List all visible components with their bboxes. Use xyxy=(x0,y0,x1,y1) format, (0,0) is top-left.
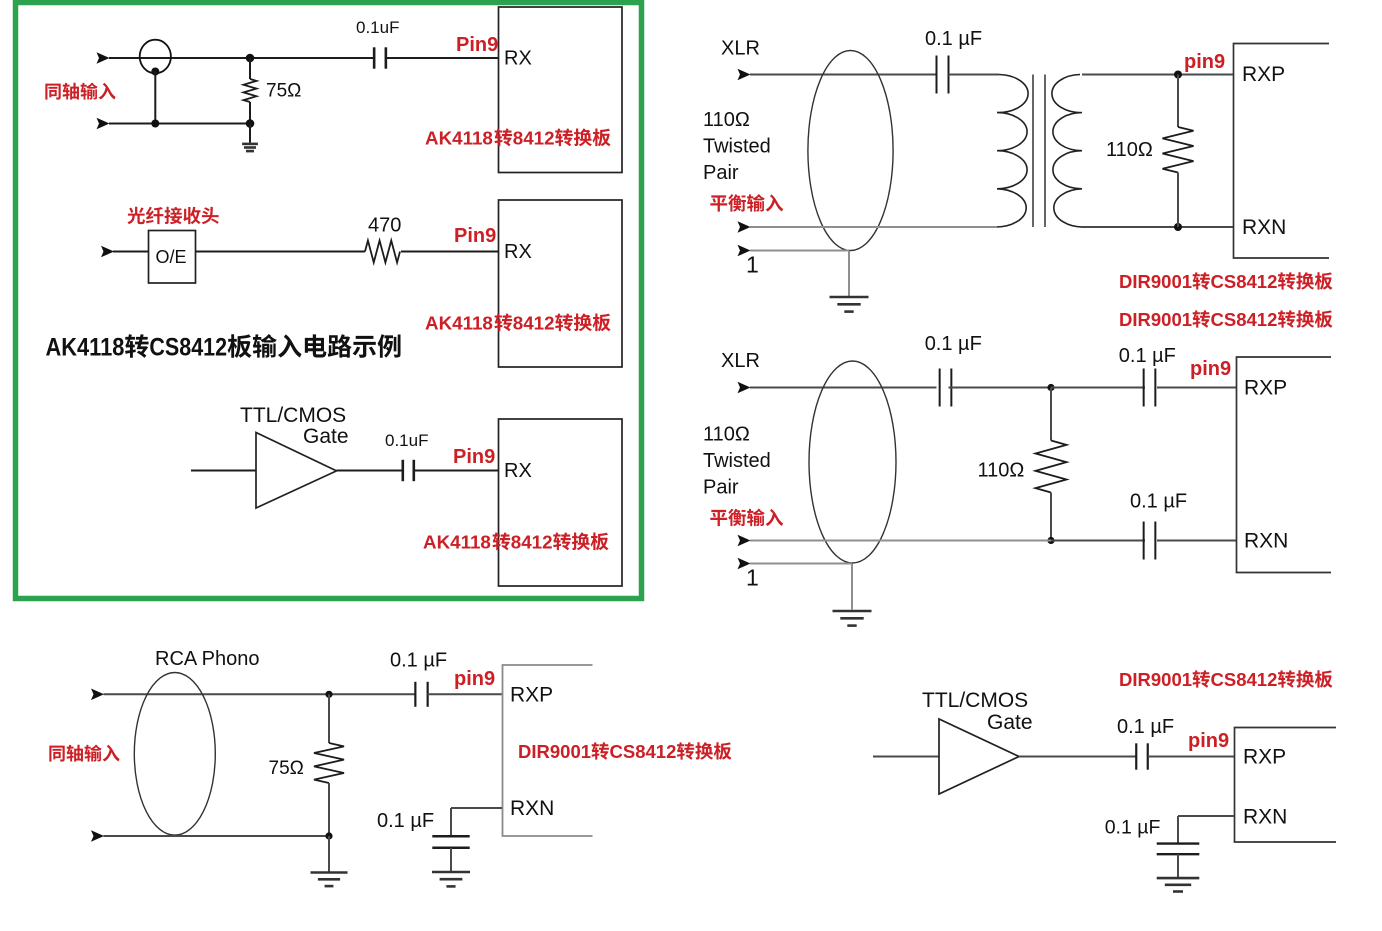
wire to ground F xyxy=(328,836,330,872)
label 0.1µF C6 xyxy=(1130,491,1187,513)
svg-text:RXP: RXP xyxy=(1244,377,1287,400)
svg-text:RXP: RXP xyxy=(510,684,553,707)
svg-text:RXN: RXN xyxy=(510,797,554,820)
svg-text:Pair: Pair xyxy=(703,477,739,499)
node R4 top xyxy=(1047,384,1054,391)
svg-text:DIR9001: DIR9001 xyxy=(1119,309,1192,330)
input arrow E pin1 xyxy=(738,558,751,570)
wire XLR hot to C3 xyxy=(750,74,937,76)
ground F xyxy=(311,873,348,887)
label 同轴输入 A xyxy=(45,83,115,100)
node return junction xyxy=(151,120,159,128)
cable shield ellipse F xyxy=(134,673,215,836)
wire R5 top lead xyxy=(328,694,330,743)
svg-text:110Ω: 110Ω xyxy=(703,109,750,131)
ground E xyxy=(833,611,872,626)
svg-text:0.1 µF: 0.1 µF xyxy=(1117,716,1174,738)
wire C7 to RXP xyxy=(428,693,503,695)
resistor R5 75Ω xyxy=(314,743,344,783)
wire node to C5 xyxy=(1051,387,1145,389)
wire C4 to node xyxy=(949,387,1052,389)
wire R1 top lead xyxy=(249,58,251,79)
wire R1 bottom lead xyxy=(249,102,251,124)
svg-text:O/E: O/E xyxy=(156,247,187,267)
pin RXP U6 xyxy=(510,684,553,707)
svg-text:8412: 8412 xyxy=(511,532,553,553)
wire circle to return xyxy=(154,72,156,124)
converter board U4 DIR9001 xyxy=(1234,44,1330,259)
label XLR E xyxy=(721,350,760,372)
pin RXP U7 xyxy=(1243,746,1286,769)
svg-text:RXN: RXN xyxy=(1243,806,1287,829)
ground G xyxy=(1157,878,1200,891)
wire shield to ground E xyxy=(851,564,853,610)
svg-text:1: 1 xyxy=(746,565,759,591)
label TTL/CMOS C xyxy=(240,404,346,427)
label 平衡输入 D xyxy=(710,194,783,212)
svg-text:Pin9: Pin9 xyxy=(453,446,495,468)
svg-text:DIR9001: DIR9001 xyxy=(1119,271,1192,292)
node R4 bottom xyxy=(1047,537,1054,544)
svg-text:1: 1 xyxy=(746,252,759,278)
label 110Ω R3 xyxy=(1106,139,1153,161)
svg-text:RCA Phono: RCA Phono xyxy=(155,648,260,670)
svg-text:110Ω: 110Ω xyxy=(703,424,750,446)
svg-text:RXN: RXN xyxy=(1242,216,1286,239)
svg-text:AK4118: AK4118 xyxy=(425,128,493,149)
wire to C8 xyxy=(450,808,452,836)
label pin9 F xyxy=(454,668,495,690)
node circle tap xyxy=(151,68,159,76)
svg-text:Pin9: Pin9 xyxy=(454,225,496,247)
pin RXP U4 xyxy=(1242,63,1285,86)
svg-text:110Ω: 110Ω xyxy=(978,460,1025,482)
wire XLR hot to C4 xyxy=(750,387,937,389)
input arrow D pin3 xyxy=(738,221,751,233)
label pin9 G xyxy=(1188,730,1229,752)
wire to ground A xyxy=(249,124,251,143)
input arrow E pin2 xyxy=(738,382,751,394)
label 光纤接收头 xyxy=(127,207,218,224)
label Pin9 A xyxy=(456,34,498,56)
pin RX U2 xyxy=(504,241,532,263)
svg-text:AK4118: AK4118 xyxy=(423,532,491,553)
svg-text:Gate: Gate xyxy=(303,425,349,448)
label DIR9001转CS8412转换板 row1 xyxy=(1119,271,1333,292)
label AK4118转8412转换板 U1 xyxy=(425,128,611,149)
svg-text:CS8412: CS8412 xyxy=(610,741,677,762)
label 0.1µF C3 xyxy=(925,28,982,50)
wire RCA return xyxy=(104,835,330,837)
label Pin9 C xyxy=(453,446,495,468)
label 75Ω R1 xyxy=(266,81,301,102)
wire R3 bottom lead xyxy=(1177,173,1179,228)
wire R3 top lead xyxy=(1177,75,1179,128)
converter board U7 DIR9001 xyxy=(1235,728,1337,843)
label 110Ω R4 xyxy=(978,460,1025,482)
label Pair D xyxy=(703,162,739,184)
svg-text:8412: 8412 xyxy=(513,313,555,334)
svg-text:75Ω: 75Ω xyxy=(269,758,304,779)
node R5 bottom xyxy=(325,832,332,839)
capacitor C5 0.1µF xyxy=(1144,369,1156,407)
wire RXN stub F xyxy=(451,807,502,809)
node R3 top xyxy=(1174,71,1182,79)
wire C3 to T1 primary xyxy=(949,74,1000,76)
label AK4118转8412转换板 U2 xyxy=(425,313,611,334)
svg-text:RX: RX xyxy=(504,48,532,70)
wire XLR cold to T1 xyxy=(750,226,997,228)
label 平衡输入 E xyxy=(710,509,783,527)
label RCA Phono xyxy=(155,648,260,670)
label 同轴输入 F xyxy=(49,745,119,762)
node R5 top xyxy=(325,691,332,698)
svg-text:8412: 8412 xyxy=(513,128,555,149)
capacitor C1 0.1uF xyxy=(374,47,386,68)
svg-text:RXN: RXN xyxy=(1244,530,1288,553)
capacitor C8 0.1µF xyxy=(432,836,469,848)
svg-text:Twisted: Twisted xyxy=(703,450,771,472)
wire O/E to R2 xyxy=(196,251,365,253)
svg-text:0.1uF: 0.1uF xyxy=(356,18,399,37)
svg-text:CS8412: CS8412 xyxy=(1211,271,1278,292)
ground F2 xyxy=(432,872,470,886)
wire R4 bottom lead xyxy=(1050,493,1052,541)
svg-text:pin9: pin9 xyxy=(454,668,495,690)
label 110Ω cable E xyxy=(703,424,750,446)
capacitor C7 0.1µF xyxy=(415,682,427,707)
label DIR9001转CS8412转换板 G xyxy=(1119,669,1333,690)
label 0.1uF C1 xyxy=(356,18,399,37)
wire XLR cold xyxy=(750,540,1051,542)
svg-text:RXP: RXP xyxy=(1242,63,1285,86)
transformer T1 xyxy=(995,75,1084,228)
svg-text:0.1 µF: 0.1 µF xyxy=(1130,491,1187,513)
label 470 R2 xyxy=(368,215,401,237)
pin RXN U6 xyxy=(510,797,554,820)
wire coax return xyxy=(109,123,250,125)
input arrow F plus xyxy=(91,689,104,701)
wire C2 to RX xyxy=(414,470,498,472)
svg-text:Pair: Pair xyxy=(703,162,739,184)
svg-text:AK4118: AK4118 xyxy=(425,313,493,334)
svg-text:CS8412: CS8412 xyxy=(149,334,227,362)
svg-text:Gate: Gate xyxy=(987,711,1033,734)
gate buffer triangle C xyxy=(256,433,337,509)
resistor R1 75Ω xyxy=(244,79,257,102)
wire T1 sec to RXP xyxy=(1082,74,1233,76)
svg-text:0.1 µF: 0.1 µF xyxy=(377,810,434,832)
wire R4 top lead xyxy=(1050,388,1052,441)
pin RX U1 xyxy=(504,48,532,70)
label 75Ω R5 xyxy=(269,758,304,779)
svg-text:0.1 µF: 0.1 µF xyxy=(390,650,447,672)
pin RXP U5 xyxy=(1244,377,1287,400)
svg-text:XLR: XLR xyxy=(721,38,760,60)
svg-text:pin9: pin9 xyxy=(1184,51,1225,73)
cable shield ellipse D xyxy=(808,51,893,251)
label Twisted E xyxy=(703,450,771,472)
svg-text:AK4118: AK4118 xyxy=(46,334,125,362)
input arrow A minus xyxy=(97,118,110,130)
wire C5 to RXP xyxy=(1157,387,1236,389)
label TTL/CMOS G xyxy=(922,689,1028,712)
converter board U6 DIR9001 xyxy=(503,665,593,836)
label 0.1µF C4 xyxy=(925,333,982,355)
svg-text:DIR9001: DIR9001 xyxy=(1119,669,1192,690)
capacitor C9 0.1µF xyxy=(1136,743,1148,769)
label 0.1µF C8 xyxy=(377,810,434,832)
input arrow D pin1 xyxy=(738,245,751,257)
node R1 bottom xyxy=(246,119,255,128)
pin RX U3 xyxy=(504,460,532,482)
wire RCA signal xyxy=(104,693,416,695)
label pin 1 E xyxy=(746,565,759,591)
wire R2 to RX xyxy=(401,251,498,253)
label Gate G xyxy=(987,711,1033,734)
resistor R3 110Ω xyxy=(1163,127,1194,173)
label XLR D xyxy=(721,38,760,60)
wire gate to C9 xyxy=(1019,756,1136,758)
label pin9 E xyxy=(1190,358,1231,380)
ground D xyxy=(830,297,869,312)
wire C6 to RXN xyxy=(1157,540,1236,542)
svg-text:0.1 µF: 0.1 µF xyxy=(925,28,982,50)
pin RXN U5 xyxy=(1244,530,1288,553)
RCA connector circle xyxy=(140,40,171,74)
converter board U5 DIR9001 xyxy=(1237,357,1332,573)
label 0.1µF C10 xyxy=(1105,817,1161,839)
svg-text:TTL/CMOS: TTL/CMOS xyxy=(922,689,1028,712)
label Twisted D xyxy=(703,136,771,158)
wire gate to C2 xyxy=(337,470,404,472)
label 0.1µF C9 xyxy=(1117,716,1174,738)
wire C8 to ground xyxy=(450,848,452,871)
label Pair E xyxy=(703,477,739,499)
svg-text:pin9: pin9 xyxy=(1188,730,1229,752)
pin RXN U7 xyxy=(1243,806,1287,829)
label DIR9001转CS8412转换板 U6 xyxy=(518,741,732,762)
label pin9 D xyxy=(1184,51,1225,73)
svg-text:TTL/CMOS: TTL/CMOS xyxy=(240,404,346,427)
node R3 bottom xyxy=(1174,223,1182,231)
label AK4118转8412转换板 U3 xyxy=(423,532,609,553)
svg-text:DIR9001: DIR9001 xyxy=(518,741,591,762)
svg-text:470: 470 xyxy=(368,215,401,237)
label 0.1uF C2 xyxy=(385,431,428,450)
label pin 1 D xyxy=(746,252,759,278)
wire to O/E xyxy=(113,251,148,253)
wire C1 to RX xyxy=(386,57,498,59)
svg-text:0.1 µF: 0.1 µF xyxy=(925,333,982,355)
svg-text:CS8412: CS8412 xyxy=(1211,669,1278,690)
capacitor C6 0.1µF xyxy=(1144,522,1156,560)
node R1 top xyxy=(246,54,255,63)
wire shield D xyxy=(750,250,849,252)
input arrow E pin3 xyxy=(738,535,751,547)
title AK4118转CS8412板输入电路示例 xyxy=(46,334,401,362)
wire shield E xyxy=(750,563,852,565)
svg-text:RXP: RXP xyxy=(1243,746,1286,769)
svg-text:0.1uF: 0.1uF xyxy=(385,431,428,450)
label 0.1µF C7 xyxy=(390,650,447,672)
svg-text:Twisted: Twisted xyxy=(703,136,771,158)
label 110Ω cable D xyxy=(703,109,750,131)
svg-text:XLR: XLR xyxy=(721,350,760,372)
wire to C10 xyxy=(1177,816,1179,844)
resistor R2 470 xyxy=(365,241,400,263)
ground A xyxy=(242,144,258,151)
svg-text:75Ω: 75Ω xyxy=(266,81,301,102)
converter board U3 AK4118 xyxy=(499,419,623,586)
gate buffer triangle G xyxy=(939,719,1019,794)
wire coax signal xyxy=(109,57,374,59)
capacitor C4 0.1µF xyxy=(940,369,952,407)
wire C10 to ground xyxy=(1177,854,1179,877)
wire gate input C xyxy=(191,470,256,472)
label O/E xyxy=(156,247,187,267)
optical receiver O/E xyxy=(149,231,196,284)
input arrow D pin2 xyxy=(738,69,751,81)
input arrow B xyxy=(101,246,114,258)
label DIR9001转CS8412转换板 row2 xyxy=(1119,309,1333,330)
wire T1 sec to RXN xyxy=(1082,226,1233,228)
wire R5 bottom lead xyxy=(328,783,330,836)
svg-text:Pin9: Pin9 xyxy=(456,34,498,56)
wire RXN stub G xyxy=(1178,815,1234,817)
label 0.1µF C5 xyxy=(1119,345,1176,367)
converter board U2 AK4118 xyxy=(499,200,623,367)
svg-text:pin9: pin9 xyxy=(1190,358,1231,380)
capacitor C3 0.1µF xyxy=(937,56,949,94)
svg-text:CS8412: CS8412 xyxy=(1211,309,1278,330)
svg-text:110Ω: 110Ω xyxy=(1106,139,1153,161)
wire C9 to RXP xyxy=(1148,756,1234,758)
wire node to C6 xyxy=(1051,540,1145,542)
wire shield to ground D xyxy=(848,251,850,297)
capacitor C2 0.1uF xyxy=(403,460,414,481)
svg-text:0.1 µF: 0.1 µF xyxy=(1119,345,1176,367)
wire gate input G xyxy=(873,756,939,758)
label Pin9 B xyxy=(454,225,496,247)
pin RXN U4 xyxy=(1242,216,1286,239)
converter board U1 AK4118 xyxy=(499,7,623,173)
capacitor C10 0.1µF xyxy=(1157,844,1200,855)
cable shield ellipse E xyxy=(809,361,896,563)
svg-text:RX: RX xyxy=(504,241,532,263)
svg-text:0.1 µF: 0.1 µF xyxy=(1105,817,1161,839)
label Gate C xyxy=(303,425,349,448)
input arrow F minus xyxy=(91,830,104,842)
input arrow A plus xyxy=(97,52,110,64)
svg-text:RX: RX xyxy=(504,460,532,482)
resistor R4 110Ω xyxy=(1036,441,1067,493)
